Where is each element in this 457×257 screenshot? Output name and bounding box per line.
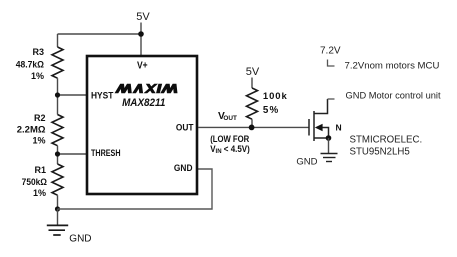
svg-text:MAX8211: MAX8211	[122, 98, 165, 110]
pin OUT	[176, 122, 194, 133]
junction dot THRESH node	[55, 151, 60, 156]
wire source to ground	[328, 138, 330, 154]
wire resistor chain: top lead of R3	[57, 34, 59, 47]
resistor R1 zigzag	[52, 164, 63, 195]
wire HYST pin	[58, 94, 89, 96]
svg-text:750kΩ: 750kΩ	[22, 177, 47, 187]
wire ground stem	[57, 209, 59, 225]
wire R3 bottom lead to HYST node	[57, 78, 59, 114]
svg-text:R2: R2	[34, 113, 46, 123]
wire drain up with tick to motor GND annotation	[328, 98, 335, 100]
wire R2 bottom lead to THRESH node	[57, 146, 59, 164]
body arrow of Q1	[315, 124, 323, 132]
value label R2 2.2M 1%	[17, 113, 46, 146]
svg-text:V+: V+	[137, 60, 148, 71]
value label R3 48.7k 1%	[16, 47, 44, 81]
label MAX8211	[122, 98, 165, 110]
svg-text:OUT: OUT	[223, 115, 237, 122]
svg-text:5V: 5V	[246, 66, 260, 78]
label (LOW FOR VIN < 4.5V)	[210, 134, 249, 145]
svg-text:1%: 1%	[31, 71, 44, 81]
resistor 100k zigzag	[247, 88, 258, 119]
logo MAXIM	[115, 84, 180, 93]
wire R1 bottom lead to ground node	[57, 195, 59, 209]
ground symbol (under Q1)	[321, 154, 338, 162]
pin HYST	[91, 90, 114, 100]
wire 100k bottom lead	[251, 119, 253, 127]
svg-text:100k: 100k	[263, 91, 288, 102]
svg-text:HYST: HYST	[91, 90, 114, 100]
svg-text:GND: GND	[296, 157, 317, 168]
drain stub	[314, 99, 328, 114]
wire GND pin routing (right of IC, down and around to ground node)	[58, 169, 213, 209]
wire top horizontal from 5V junction to resistor chain	[58, 33, 142, 35]
wire 7.2V annotation bracket	[328, 60, 335, 67]
junction dot ground node	[55, 206, 60, 211]
svg-text:STMICROELEC.: STMICROELEC.	[350, 134, 423, 145]
svg-text:R3: R3	[32, 47, 44, 57]
ground symbol (left)	[47, 225, 68, 235]
junction dot source/body	[326, 135, 332, 141]
svg-text:2.2MΩ: 2.2MΩ	[17, 125, 46, 136]
svg-text:GND Motor control unit: GND Motor control unit	[346, 91, 441, 101]
svg-text:R1: R1	[34, 165, 46, 175]
svg-text:5V: 5V	[136, 11, 150, 23]
junction dot at 5V node	[138, 31, 144, 37]
wire OUT to gate	[198, 126, 309, 128]
svg-text:48.7kΩ: 48.7kΩ	[16, 59, 44, 69]
wire THRESH pin	[58, 153, 89, 155]
svg-text:STU95N2LH5: STU95N2LH5	[350, 146, 410, 157]
resistor R3 zigzag	[52, 47, 63, 78]
svg-text:GND: GND	[69, 234, 91, 245]
svg-text:5%: 5%	[263, 105, 279, 116]
junction dot HYST node	[55, 92, 60, 97]
transistor Q1 N-MOSFET	[309, 99, 329, 141]
wire 5V stub to 100k	[251, 78, 253, 89]
pin V+	[137, 60, 148, 71]
svg-text:7.2Vnom motors MCU: 7.2Vnom motors MCU	[345, 60, 440, 71]
source stub	[314, 137, 329, 139]
junction dot OUT node	[249, 125, 255, 131]
svg-text:N: N	[336, 122, 342, 132]
channel bar	[313, 111, 315, 141]
svg-text:GND: GND	[174, 163, 193, 174]
svg-text:1%: 1%	[32, 136, 45, 146]
body wire	[322, 128, 329, 139]
wire 5V stub down to junction	[140, 23, 142, 35]
svg-text:7.2V: 7.2V	[320, 46, 341, 57]
IC U1 MAX8211 comparator box	[87, 56, 197, 194]
pin GND	[174, 163, 193, 174]
svg-text:1%: 1%	[33, 188, 46, 198]
svg-text:OUT: OUT	[176, 122, 194, 133]
pin THRESH	[91, 148, 121, 158]
gate bar	[308, 119, 310, 136]
value label R1 750k 1%	[22, 165, 47, 198]
svg-text:VIN < 4.5V): VIN < 4.5V)	[210, 144, 250, 156]
wire V+ vertical into IC	[140, 34, 142, 57]
svg-text:THRESH: THRESH	[91, 148, 121, 158]
resistor R2 zigzag	[52, 115, 63, 146]
